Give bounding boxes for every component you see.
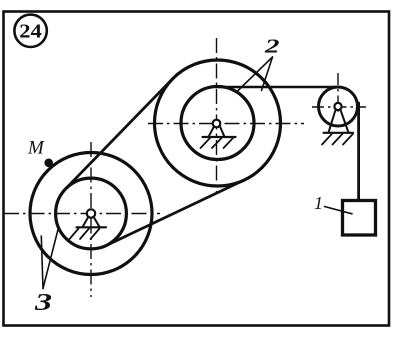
wheel 2 inner circle <box>181 87 254 160</box>
pulley circle <box>319 87 358 126</box>
leader line label 1 <box>325 207 353 214</box>
centerline wheel3 horizontal <box>4 213 160 215</box>
leader lines label 2 <box>236 57 273 93</box>
svg-text:24: 24 <box>19 20 42 42</box>
centerline pulley horizontal <box>312 106 366 108</box>
weight 1 box <box>343 201 376 236</box>
wheel 3 inner circle <box>56 178 127 249</box>
rope vertical pulley to weight <box>357 103 360 204</box>
svg-text:1: 1 <box>314 193 323 213</box>
support pivot wheel 3 <box>70 209 107 239</box>
svg-text:2: 2 <box>264 36 280 58</box>
support pivot pulley <box>322 103 353 145</box>
centerline pulley vertical <box>337 73 339 112</box>
centerline wheel2 vertical <box>216 38 218 192</box>
point M dot <box>44 159 53 168</box>
rope horizontal wheel2 to pulley <box>217 86 341 89</box>
svg-text:M: M <box>27 138 45 159</box>
svg-text:3: 3 <box>34 290 52 316</box>
centerline wheel2 horizontal <box>148 123 304 125</box>
wheel 3 outer circle <box>30 153 152 275</box>
centerline wheel3 vertical <box>90 142 92 297</box>
belt lower tangent line <box>106 180 244 246</box>
badge circle 24 <box>14 15 46 47</box>
wheel 2 outer circle <box>155 60 281 186</box>
belt upper tangent line <box>66 79 173 189</box>
leader lines label 3 <box>41 236 43 289</box>
support pivot wheel 2 <box>201 120 236 148</box>
